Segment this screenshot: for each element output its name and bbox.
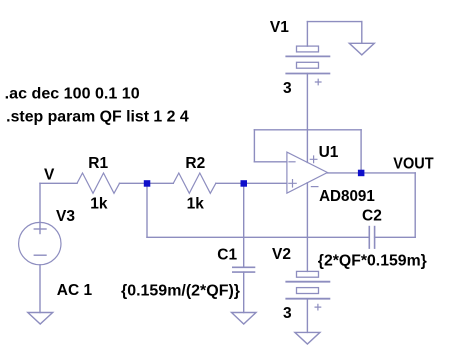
svg-text:3: 3 [283, 305, 292, 322]
svg-text:R2: R2 [185, 155, 205, 172]
svg-text:1k: 1k [90, 196, 108, 213]
svg-text:V: V [44, 167, 55, 184]
svg-text:.step param QF list 1 2 4: .step param QF list 1 2 4 [6, 109, 189, 126]
svg-text:C1: C1 [217, 247, 237, 264]
svg-text:VOUT: VOUT [393, 156, 434, 173]
svg-text:C2: C2 [362, 208, 382, 225]
svg-text:V1: V1 [270, 19, 289, 36]
svg-text:.ac dec 100 0.1 10: .ac dec 100 0.1 10 [5, 85, 140, 102]
svg-text:AD8091: AD8091 [319, 188, 375, 205]
svg-text:3: 3 [283, 80, 292, 97]
svg-text:AC 1: AC 1 [57, 282, 93, 299]
svg-text:{2*QF*0.159m}: {2*QF*0.159m} [318, 253, 427, 270]
svg-text:1k: 1k [187, 196, 205, 213]
svg-text:V3: V3 [56, 208, 75, 225]
svg-text:R1: R1 [88, 155, 108, 172]
svg-text:{0.159m/(2*QF)}: {0.159m/(2*QF)} [121, 282, 240, 299]
svg-text:U1: U1 [319, 144, 339, 161]
svg-text:V2: V2 [272, 246, 291, 263]
